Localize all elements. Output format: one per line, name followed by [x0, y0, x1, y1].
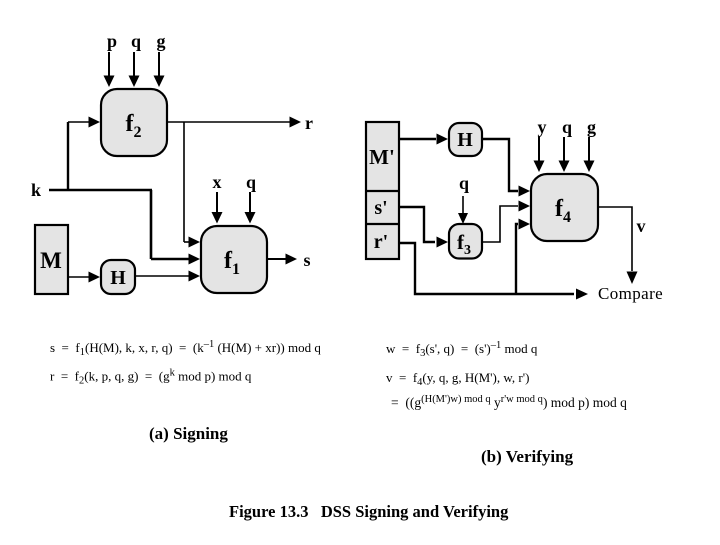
wire branch up to f4 third input [516, 224, 518, 294]
wire f4 output v down [598, 207, 632, 271]
wire g to f2 [158, 52, 160, 76]
box f2 [101, 89, 167, 156]
box H (signing) [101, 260, 135, 294]
svg-text:v: v [637, 216, 646, 236]
wire f3 to f4 [482, 206, 518, 242]
wire p to f2 [108, 52, 110, 76]
wire s' to f3 [399, 207, 435, 242]
svg-text:s: s [303, 250, 310, 270]
wire y to f4 [538, 137, 540, 163]
box H (verifying) [449, 123, 482, 156]
svg-text:g: g [157, 31, 166, 51]
box M [35, 225, 68, 294]
wire x to f1 [216, 192, 218, 213]
svg-text:g: g [587, 117, 596, 137]
wire k down to f1 [150, 190, 153, 259]
svg-text:w = f3(s', q) = (s')–1 mod: w = f3(s', q) = (s')–1 mod q [386, 340, 538, 359]
wire f2 output to r [167, 121, 290, 123]
wire g to f4 [588, 137, 590, 163]
svg-text:Compare: Compare [598, 284, 663, 303]
svg-text:r': r' [374, 231, 388, 253]
svg-text:M': M' [369, 145, 395, 169]
svg-text:x: x [213, 172, 222, 192]
svg-text:M: M [40, 248, 62, 273]
svg-text:H: H [457, 129, 473, 151]
svg-text:= ((g(H(M')w) mod q yr'w mod: = ((g(H(M')w) mod q yr'w mod q) mod p) m… [391, 394, 627, 410]
box f1 [201, 226, 267, 293]
svg-text:q: q [562, 117, 572, 137]
svg-text:y: y [538, 117, 547, 137]
svg-text:q: q [459, 173, 469, 193]
wire q to f2 [133, 52, 135, 76]
svg-text:p: p [107, 31, 117, 51]
wire q to f1 [249, 192, 251, 213]
svg-text:Figure 13.3 DSS Signing and: Figure 13.3 DSS Signing and Verifying [229, 502, 509, 521]
wire H to f4 [482, 139, 518, 191]
box f3 [449, 224, 482, 259]
svg-text:k: k [31, 180, 41, 200]
svg-text:r: r [305, 113, 313, 133]
svg-text:(b) Verifying: (b) Verifying [481, 447, 574, 466]
wire M' to H [399, 138, 436, 140]
svg-text:s = f1(H(M), k, x, r, q) =: s = f1(H(M), k, x, r, q) = (k–1 (H(M) + … [50, 339, 321, 358]
wire r' to Compare [399, 243, 574, 294]
svg-text:s': s' [374, 197, 387, 219]
svg-text:q: q [246, 172, 256, 192]
wire q to f3 [462, 196, 464, 215]
wire r branch down to f1 [183, 122, 185, 242]
box f4 [531, 174, 598, 241]
svg-text:(a) Signing: (a) Signing [149, 424, 228, 443]
wire k horizontal [49, 189, 152, 192]
svg-text:q: q [131, 31, 141, 51]
svg-text:r = f2(k, p, q, g) = (gk m: r = f2(k, p, q, g) = (gk mod p) mod q [50, 368, 252, 387]
wire q to f4 [563, 137, 565, 163]
wire f1 output to s [267, 258, 286, 260]
svg-text:v = f4(y, q, g, H(M'), w, r': v = f4(y, q, g, H(M'), w, r') [386, 370, 529, 388]
wire k branch up to f2 [67, 122, 69, 191]
svg-text:H: H [110, 267, 126, 289]
box M' s' r' column [366, 122, 399, 259]
wire M to H [68, 276, 89, 278]
wire H to f1 [135, 275, 189, 277]
